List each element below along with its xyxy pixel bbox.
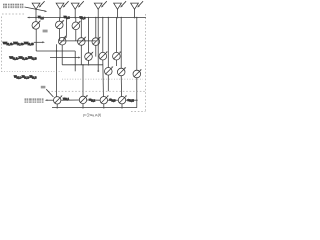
- bus 2: [60, 40, 96, 42]
- svg-text:w2,1,w2,2,w2,3: w2,1,w2,2,w2,3: [3, 41, 34, 46]
- weight W2,1: [58, 18, 67, 65]
- antenna-4 feed lower end: [97, 18, 99, 71]
- antenna 6: [131, 1, 144, 17]
- antenna 2: [56, 1, 69, 17]
- dotted break line left: [2, 71, 63, 73]
- junction dots on bus 1: [35, 17, 137, 19]
- svg-text:wM,1,wM,2,wM,3: wM,1,wM,2,wM,3: [14, 75, 37, 80]
- output M arrow: [47, 99, 54, 101]
- label 第1路输出 (output 1 text): [3, 4, 24, 8]
- svg-text:y=∑wM,ixi(t): y=∑wM,ixi(t): [83, 113, 101, 118]
- outer dashed border left: [1, 17, 3, 72]
- inner dashed box bottom right: [131, 110, 146, 112]
- bus 4: [62, 64, 103, 66]
- antenna 5: [114, 1, 127, 17]
- weight W2,3: [92, 18, 101, 57]
- weight W1,3: [72, 18, 81, 41]
- weight W1,1: [32, 18, 41, 52]
- bus 1: [28, 17, 146, 19]
- bus M segment: [61, 99, 79, 101]
- weight WM,3: [100, 95, 109, 104]
- antenna 1: [32, 1, 45, 17]
- antenna 4: [94, 1, 107, 17]
- weight row4 b: [117, 18, 126, 97]
- leader arrow row 2: [34, 41, 43, 43]
- svg-text:w3,1,w3,2,w3,3: w3,1,w3,2,w3,3: [10, 56, 38, 61]
- bus M segment to right vertical: [126, 99, 137, 101]
- dashed border right: [145, 14, 147, 111]
- weight W3,1: [85, 18, 94, 65]
- weight WM,2: [79, 95, 88, 104]
- svg-text:w1,2: w1,2: [64, 15, 70, 20]
- stubs from weights down to summing line: [56, 104, 58, 108]
- leader arrow from output-1 label: [25, 7, 46, 11]
- bus 3 arrow: [50, 57, 79, 59]
- inner dashed box top: [48, 90, 146, 92]
- weight W2,2: [78, 18, 87, 65]
- weight row4 c: [133, 18, 142, 108]
- outer dashed border top-left: [2, 13, 25, 15]
- weight WM,1: [54, 95, 63, 104]
- label 第M路输出 (output M text): [25, 98, 44, 102]
- summing bus: [52, 107, 137, 109]
- staircase wire from W1,1: [36, 50, 75, 52]
- weight W3,2: [99, 18, 108, 97]
- weight W3,3: [113, 18, 122, 67]
- small label near WM,1: [41, 86, 46, 89]
- bus M segment: [108, 99, 119, 101]
- svg-text:w1,3: w1,3: [80, 15, 86, 20]
- svg-text:w1,1: w1,1: [38, 15, 44, 20]
- weight row4 a: [105, 18, 114, 92]
- antenna 3: [71, 1, 84, 17]
- drop to WM,2: [82, 65, 84, 96]
- weight WM,N: [118, 95, 127, 104]
- bus M segment: [87, 99, 100, 101]
- dotted break line right: [62, 78, 143, 80]
- weight W1,2: [56, 18, 65, 41]
